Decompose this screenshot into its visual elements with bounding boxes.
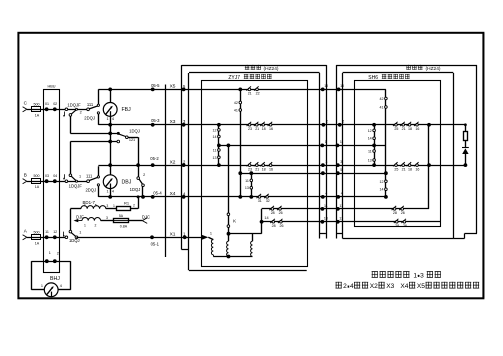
winding BD1-7	[81, 206, 106, 209]
wire circleA row1 down to rail A	[70, 116, 72, 133]
node chain/wire145	[217, 144, 221, 148]
blade row1 upper	[89, 106, 98, 109]
cable node 1	[320, 144, 324, 148]
phase-breaker box HBU	[44, 90, 60, 273]
svg-text:05-4: 05-4	[153, 191, 162, 196]
node 2	[53, 259, 57, 263]
cable node 13b	[336, 220, 340, 224]
svg-text:1DQJ: 1DQJ	[129, 128, 140, 133]
diode bar	[462, 147, 469, 149]
svg-text:5A: 5A	[119, 214, 124, 218]
svg-text:01: 01	[45, 102, 49, 106]
contact 11-13 left chain	[218, 149, 221, 152]
X5 rail left segment	[98, 89, 240, 91]
svg-text:2: 2	[94, 224, 96, 228]
svg-text:3: 3	[420, 272, 424, 279]
node 02	[53, 107, 57, 111]
svg-text:1: 1	[79, 230, 81, 234]
terminal 05-3	[151, 123, 155, 127]
contact 11-13 right chain	[373, 150, 376, 153]
node 04	[53, 179, 57, 183]
svg-text:(HZ24): (HZ24)	[264, 66, 279, 72]
contact 11-13 chain2	[250, 179, 253, 182]
down arrow row1	[64, 112, 66, 116]
contact group X2 right	[395, 164, 398, 167]
cable node 5b	[336, 171, 340, 175]
diode triangle	[462, 148, 468, 154]
open contact row2	[97, 184, 99, 186]
cable node 11b	[336, 207, 340, 211]
svg-text:12: 12	[380, 180, 384, 184]
contact 1DQJ (2) between X2 and X4	[138, 165, 140, 177]
winding W2	[227, 241, 229, 256]
contact 21-22 X5	[248, 88, 251, 91]
contact 121	[126, 136, 129, 139]
X4 rail	[98, 196, 183, 198]
contact group X2	[248, 164, 251, 167]
svg-text:1A: 1A	[35, 113, 40, 117]
cable box (HZ24) right	[336, 65, 338, 238]
winding bottom rail	[213, 256, 252, 258]
contact 12-14 right low	[385, 180, 388, 183]
down arrow row2	[64, 174, 66, 178]
svg-text:18: 18	[262, 167, 266, 171]
svg-text:18: 18	[408, 127, 412, 131]
contact K	[228, 145, 230, 233]
svg-text:X3: X3	[386, 283, 394, 290]
svg-text:21: 21	[248, 92, 252, 96]
svg-text:111: 111	[87, 102, 94, 107]
X4 row across	[184, 196, 386, 198]
svg-text:500: 500	[34, 230, 40, 234]
outer border frame	[18, 33, 483, 299]
contact group X3	[248, 124, 251, 127]
open circle rail B end	[117, 140, 120, 143]
svg-text:28: 28	[272, 224, 276, 228]
svg-text:1: 1	[340, 140, 342, 144]
wire X4 rail down to R1	[138, 197, 140, 209]
svg-text:1DQJ: 1DQJ	[69, 238, 80, 243]
svg-text:16: 16	[415, 167, 419, 171]
X2 rail	[98, 165, 183, 167]
contact pivot row C	[65, 108, 68, 111]
svg-text:11: 11	[245, 179, 249, 183]
svg-text:12: 12	[368, 129, 372, 133]
cable node 2b	[338, 123, 342, 127]
node FBJ top	[108, 88, 112, 92]
svg-text:11: 11	[368, 150, 372, 154]
node winding bottom	[227, 255, 231, 259]
svg-text:BHJ: BHJ	[50, 276, 60, 282]
node rail A	[108, 132, 112, 136]
resistor right	[464, 132, 468, 141]
relay FBJ	[103, 103, 117, 117]
node 121/X2	[136, 163, 140, 167]
rail A	[70, 133, 118, 135]
wire X3 down to row209	[428, 125, 430, 209]
svg-text:1: 1	[113, 204, 115, 208]
vertical from X5 node down	[240, 89, 242, 196]
svg-text:2: 2	[342, 120, 344, 124]
svg-text:14: 14	[213, 135, 217, 139]
svg-text:121: 121	[129, 138, 135, 142]
svg-text:DBJ: DBJ	[122, 179, 132, 185]
contact 28-26 row221 left	[272, 221, 275, 224]
fuse 0.8A	[114, 219, 129, 223]
terminal X4 pin	[182, 195, 186, 199]
svg-text:500: 500	[34, 174, 40, 178]
svg-text:18: 18	[262, 127, 266, 131]
blade 1DQJ/121	[119, 134, 126, 136]
svg-text:23: 23	[248, 127, 252, 131]
terminal 05-4	[151, 195, 155, 199]
note line 2	[336, 282, 342, 289]
wire row209 corner down	[261, 209, 263, 222]
node chain right/wire145	[372, 144, 376, 148]
upper circle row3	[69, 230, 72, 233]
svg-text:21: 21	[402, 127, 406, 131]
contact 28-26 row209 right	[393, 208, 396, 211]
contact 12-14 right chain	[373, 129, 376, 132]
svg-text:26: 26	[280, 224, 284, 228]
node X2/DBJ top	[108, 163, 112, 167]
svg-text:21: 21	[402, 167, 406, 171]
X5 row	[240, 89, 386, 91]
svg-text:2DQJ: 2DQJ	[85, 188, 96, 193]
cable node 13	[321, 220, 325, 224]
node 11	[45, 235, 49, 239]
svg-text:500: 500	[34, 102, 40, 106]
svg-text:0.8A: 0.8A	[120, 224, 128, 228]
svg-text:12: 12	[213, 128, 217, 132]
svg-text:16: 16	[269, 167, 273, 171]
node 1	[45, 259, 49, 263]
svg-text:3: 3	[325, 160, 327, 164]
terminal X5 pin	[182, 88, 186, 92]
winding DJF	[82, 218, 101, 221]
svg-text:11: 11	[324, 204, 328, 208]
svg-text:X3: X3	[170, 119, 176, 125]
contact 28-26 row209 left	[271, 208, 274, 211]
node R1/X4	[137, 195, 140, 198]
node 12	[53, 235, 57, 239]
terminal X1 pin	[183, 235, 187, 239]
label 电液转辙机	[244, 74, 249, 79]
node chain/X2	[217, 163, 221, 167]
node X4 junction	[141, 195, 145, 199]
svg-text:26: 26	[401, 211, 405, 215]
svg-text:1A: 1A	[35, 241, 40, 245]
svg-text:41: 41	[380, 106, 384, 110]
svg-text:1DQJ: 1DQJ	[130, 187, 141, 192]
svg-text:1: 1	[107, 189, 109, 193]
svg-text:05-1: 05-1	[151, 241, 160, 246]
row 173	[240, 173, 386, 175]
svg-text:13: 13	[245, 186, 249, 190]
svg-text:14: 14	[368, 137, 372, 141]
svg-text:16: 16	[415, 127, 419, 131]
svg-text:13: 13	[339, 217, 343, 221]
node chain2 top	[249, 171, 253, 175]
svg-text:3: 3	[106, 204, 108, 208]
svg-text:03: 03	[45, 174, 49, 178]
svg-text:10: 10	[324, 84, 328, 88]
open contact row1	[97, 112, 99, 114]
contact 12-14 left chain	[218, 129, 221, 132]
svg-text:22: 22	[256, 92, 260, 96]
wire C input to contact	[27, 109, 65, 111]
node vert right/X4	[384, 195, 388, 199]
wire BD1-7 left down to row3 contact	[70, 209, 72, 231]
terminal 05-2	[151, 163, 155, 167]
cable node 4	[321, 195, 325, 199]
terminal 05-5	[151, 88, 155, 92]
svg-text:11: 11	[213, 149, 217, 153]
svg-text:12: 12	[53, 230, 57, 234]
front contact 111 row1	[97, 104, 99, 106]
svg-text:26: 26	[279, 211, 283, 215]
node X5/vert	[238, 88, 242, 92]
cable box (HZ24) left	[181, 65, 183, 249]
arrow X1 into winding	[202, 235, 208, 240]
svg-text:32: 32	[266, 199, 270, 203]
svg-text:4: 4	[350, 283, 354, 290]
svg-text:28: 28	[393, 211, 397, 215]
svg-text:23: 23	[248, 167, 252, 171]
svg-text:X2: X2	[370, 283, 378, 290]
wire down to X3 rail	[98, 114, 100, 125]
svg-text:14: 14	[264, 216, 268, 220]
row 209	[262, 208, 429, 210]
svg-text:41: 41	[234, 109, 238, 113]
svg-text:X1: X1	[170, 232, 176, 238]
cable node 4b	[336, 195, 340, 199]
terminal strip	[165, 85, 167, 258]
X1 rail	[76, 237, 201, 239]
svg-text:1: 1	[84, 203, 86, 207]
svg-text:05-5: 05-5	[151, 83, 160, 88]
wire row221 corner down to transformer	[261, 222, 263, 234]
node DBJ/X4	[108, 195, 112, 199]
relay BHJ	[44, 283, 58, 297]
node 01	[45, 107, 49, 111]
svg-text:13: 13	[213, 156, 217, 160]
fuse 1A row A	[32, 235, 41, 240]
rail B	[70, 141, 118, 143]
node rail B	[108, 140, 112, 144]
svg-text:18: 18	[408, 167, 412, 171]
svg-text:1: 1	[413, 272, 417, 279]
wire R1 to vertical	[131, 208, 139, 210]
svg-text:4: 4	[112, 117, 114, 121]
cable node 10	[321, 88, 325, 92]
svg-text:1: 1	[49, 251, 51, 255]
contact pivot row A	[65, 236, 68, 239]
svg-text:11: 11	[45, 230, 49, 234]
wire FBJ bottom down through rails to DBJ	[110, 116, 112, 175]
svg-text:14: 14	[380, 188, 384, 192]
box SH6	[342, 73, 344, 239]
svg-text:05-3: 05-3	[151, 118, 160, 123]
contact 28-26 row221 right	[396, 221, 399, 224]
armature node 1DQJ	[117, 132, 120, 135]
svg-text:4: 4	[112, 189, 114, 193]
node 03	[45, 179, 49, 183]
relay DBJ	[103, 175, 117, 189]
cable node 2	[322, 123, 326, 127]
node X3/FBJ	[108, 123, 112, 127]
winding W3	[251, 241, 253, 256]
wire DBJ bottom to X4 rail	[110, 188, 112, 197]
node vert240/X4	[238, 195, 242, 199]
fuse 1A row B	[32, 179, 41, 184]
svg-text:2: 2	[57, 251, 59, 255]
svg-text:1: 1	[79, 175, 81, 179]
arrow to DJF	[74, 219, 79, 222]
svg-text:26: 26	[403, 224, 407, 228]
svg-text:X4: X4	[170, 191, 176, 197]
cable node 1b	[336, 144, 340, 148]
front contact 111 row2	[97, 176, 99, 178]
wire B input to contact	[27, 181, 65, 183]
svg-text:1DQJF: 1DQJF	[69, 183, 83, 188]
svg-text:K: K	[233, 218, 236, 223]
svg-text:10: 10	[340, 84, 344, 88]
wire FBJ coil top	[110, 89, 112, 102]
svg-text:1: 1	[41, 284, 43, 288]
blade row2 upper	[89, 177, 98, 180]
wire 111 up to X5 rail	[98, 89, 100, 104]
svg-text:21: 21	[255, 127, 259, 131]
node vert right/row173	[384, 171, 388, 175]
chain 374 right	[374, 125, 376, 165]
cable node 3	[321, 163, 325, 167]
contact pivot row B	[65, 180, 68, 183]
wire 145 row	[219, 145, 386, 147]
svg-text:HBU: HBU	[47, 84, 55, 88]
wire A input to contact	[27, 237, 65, 239]
chain 218.9 contacts	[218, 125, 220, 165]
wire BHJ top	[31, 261, 70, 263]
node X3/vert right	[427, 123, 431, 127]
vertical X5 right with contacts	[385, 89, 387, 196]
svg-text:13: 13	[324, 217, 328, 221]
svg-text:21: 21	[255, 167, 259, 171]
blade row1 lower	[71, 110, 76, 114]
cable node 5	[321, 171, 325, 175]
X3 row	[184, 124, 466, 126]
circleA row2	[69, 174, 72, 177]
svg-text:111: 111	[86, 174, 93, 179]
svg-text:42: 42	[234, 101, 238, 105]
svg-text:31: 31	[258, 199, 262, 203]
node row221 left	[260, 220, 264, 224]
svg-text:05-2: 05-2	[150, 156, 159, 161]
svg-text:2DQJ: 2DQJ	[84, 116, 95, 121]
wire 121 down to X2 rail	[138, 137, 140, 165]
back contact circle row1	[69, 114, 72, 117]
svg-text:3: 3	[106, 216, 108, 220]
svg-text:B: B	[24, 173, 27, 178]
svg-text:1: 1	[84, 223, 86, 227]
wire BHJ right	[70, 261, 72, 290]
blade row2 from circleA	[71, 176, 76, 181]
svg-text:3: 3	[340, 160, 342, 164]
blade row3	[71, 232, 76, 236]
svg-text:28: 28	[395, 224, 399, 228]
winding W1	[211, 240, 213, 255]
wire open contact down to X4 rail	[98, 186, 100, 197]
svg-text:X4: X4	[400, 283, 408, 290]
svg-text:R1: R1	[124, 201, 130, 206]
node K bottom	[227, 232, 231, 236]
wire K to winding 2	[228, 234, 230, 242]
svg-text:1: 1	[210, 232, 212, 236]
cable node 11	[321, 207, 325, 211]
svg-text:16: 16	[269, 127, 273, 131]
fuse 1A row C	[32, 107, 41, 112]
row 221	[260, 221, 441, 223]
svg-text:02: 02	[53, 102, 57, 106]
svg-text:FBJ: FBJ	[122, 107, 132, 113]
inner box SH6	[355, 81, 441, 227]
wire to winding 3	[252, 234, 254, 242]
svg-text:4: 4	[60, 284, 62, 288]
node vert240/row173	[238, 171, 242, 175]
node X2/vert right	[427, 163, 431, 167]
svg-text:04: 04	[53, 174, 57, 178]
cable node 10b	[337, 88, 341, 92]
node X3 chain	[217, 123, 221, 127]
chain 251.3	[251, 173, 253, 197]
label 转换锁闭器	[382, 74, 387, 79]
svg-text:28: 28	[271, 211, 275, 215]
svg-text:2: 2	[80, 111, 82, 115]
cable node 3b	[336, 163, 340, 167]
node X3 chain right	[372, 123, 376, 127]
svg-text:13: 13	[368, 159, 372, 163]
svg-text:X5: X5	[417, 283, 425, 290]
svg-text:1A: 1A	[35, 185, 40, 189]
svg-text:5: 5	[325, 168, 327, 172]
svg-text:2: 2	[133, 204, 135, 208]
down arrow row3	[63, 232, 65, 236]
wire BHJ left	[31, 261, 33, 290]
contact 42-41 left	[239, 101, 242, 104]
svg-text:1DQJF: 1DQJF	[67, 102, 81, 107]
svg-text:4: 4	[341, 192, 343, 196]
svg-text:2: 2	[326, 120, 328, 124]
node chain right/X2	[372, 163, 376, 167]
note line 1	[372, 271, 378, 278]
box ZYJ7	[188, 73, 190, 270]
node X3/diode branch	[464, 123, 467, 126]
svg-text:2: 2	[143, 173, 145, 177]
wire X2 rail left end down to row2 front contact	[98, 166, 100, 176]
X2 row continuation	[184, 165, 466, 167]
svg-text:2: 2	[343, 283, 347, 290]
svg-text:25: 25	[394, 167, 398, 171]
svg-text:5: 5	[95, 203, 97, 207]
wire rail B down to row2 contact	[70, 142, 72, 174]
terminal X2 pin	[182, 163, 186, 167]
wire top link	[229, 233, 262, 235]
svg-text:1: 1	[107, 117, 109, 121]
node K wire	[227, 144, 231, 148]
svg-text:4: 4	[325, 192, 327, 196]
svg-text:X2: X2	[170, 159, 176, 165]
node chain2/X4	[249, 195, 253, 199]
